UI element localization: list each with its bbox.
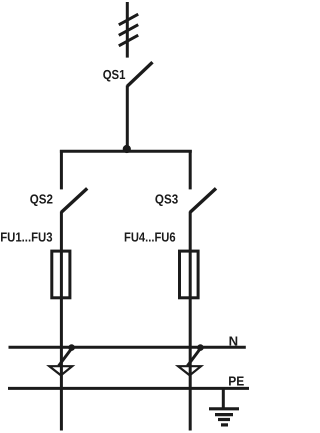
svg-text:FU4...FU6: FU4...FU6 <box>124 230 176 245</box>
switch QS3 blade <box>190 188 216 212</box>
right N tap diagonal wire <box>187 349 200 366</box>
wire: ground stem from PE bus <box>222 388 225 408</box>
svg-text:QS3: QS3 <box>155 192 178 207</box>
fuse FU4...FU6 body <box>180 251 199 298</box>
three-phase slash marks on feeder <box>119 14 138 46</box>
svg-text:N: N <box>229 333 239 348</box>
wire: incoming supply feeder vertical <box>126 2 129 58</box>
PE bus wire <box>8 387 249 390</box>
svg-text:QS2: QS2 <box>30 192 53 207</box>
node: N tap dot right <box>197 344 204 351</box>
wire: QS1 to junction node <box>126 86 129 152</box>
left N tap diagonal wire <box>59 349 72 366</box>
wire: left branch upper vertical <box>60 150 63 189</box>
svg-text:FU1...FU3: FU1...FU3 <box>0 229 52 244</box>
junction node dot <box>123 145 131 153</box>
N bus wire <box>9 346 246 349</box>
switch QS1 blade <box>127 62 152 86</box>
svg-text:QS1: QS1 <box>103 67 126 82</box>
left socket triangle <box>49 366 72 375</box>
earth ground symbol <box>209 409 239 425</box>
fuse FU1...FU3 body <box>52 251 70 298</box>
wire: QS2 through fuse FU1 down across N and PE buses <box>60 212 63 431</box>
wire: QS3 through fuse FU4 down across N and PE buses <box>189 212 192 431</box>
wire: distribution bus horizontal <box>60 150 192 153</box>
switch QS2 blade <box>61 188 87 212</box>
node: N tap dot left <box>68 344 75 351</box>
right socket triangle <box>178 366 201 375</box>
wire: right branch upper vertical <box>189 150 192 189</box>
svg-text:PE: PE <box>228 374 244 389</box>
